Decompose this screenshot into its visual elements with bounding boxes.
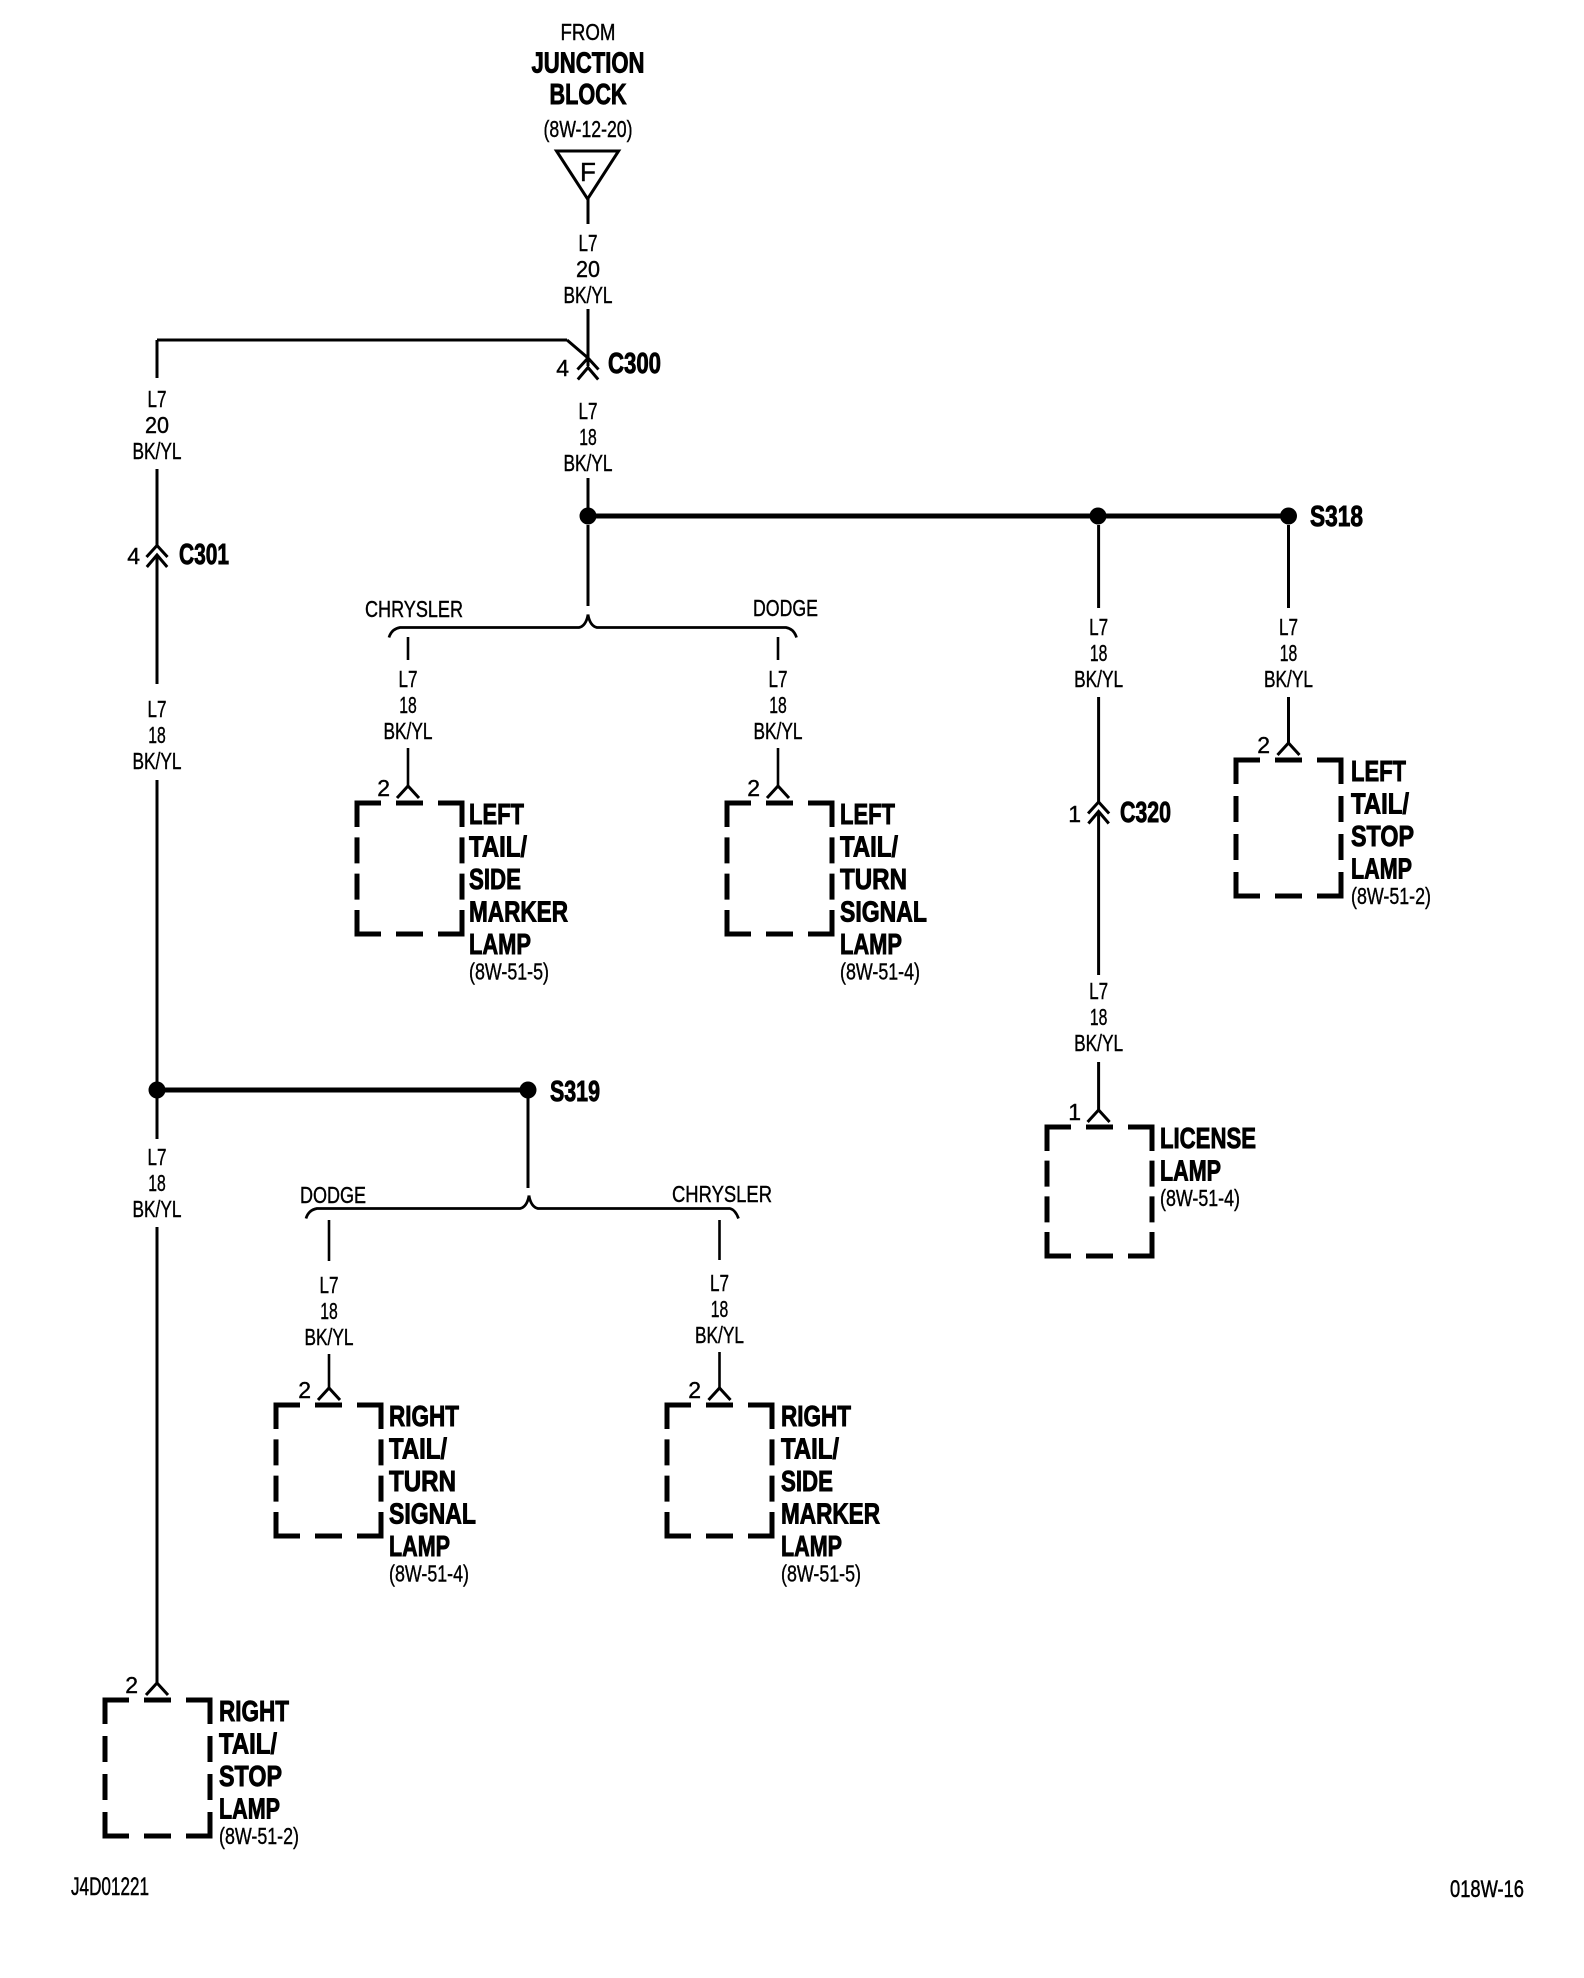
svg-text:18: 18 [148, 722, 166, 748]
svg-text:(8W-51-4): (8W-51-4) [1160, 1185, 1240, 1211]
svg-text:18: 18 [769, 692, 787, 718]
svg-text:TAIL/: TAIL/ [1351, 789, 1409, 821]
svg-text:LICENSE: LICENSE [1160, 1123, 1256, 1155]
svg-text:SIDE: SIDE [469, 864, 521, 896]
svg-text:18: 18 [579, 424, 597, 450]
svg-text:1: 1 [1068, 1099, 1081, 1125]
svg-text:TURN: TURN [840, 864, 907, 896]
svg-text:RIGHT: RIGHT [389, 1401, 459, 1433]
svg-text:LAMP: LAMP [1351, 854, 1412, 886]
svg-text:(8W-51-5): (8W-51-5) [469, 959, 549, 985]
svg-text:RIGHT: RIGHT [219, 1696, 289, 1728]
svg-text:(8W-51-4): (8W-51-4) [840, 959, 920, 985]
svg-text:TAIL/: TAIL/ [840, 832, 898, 864]
svg-text:018W-16: 018W-16 [1450, 1876, 1524, 1903]
svg-text:(8W-51-5): (8W-51-5) [781, 1561, 861, 1587]
svg-text:LAMP: LAMP [840, 929, 902, 961]
svg-text:BK/YL: BK/YL [305, 1324, 354, 1350]
svg-text:BK/YL: BK/YL [384, 718, 433, 744]
svg-text:LAMP: LAMP [389, 1531, 450, 1563]
svg-text:18: 18 [320, 1298, 338, 1324]
svg-text:CHRYSLER: CHRYSLER [672, 1181, 772, 1207]
svg-text:BK/YL: BK/YL [133, 1196, 182, 1222]
svg-text:BK/YL: BK/YL [1074, 666, 1123, 692]
svg-text:TAIL/: TAIL/ [781, 1434, 839, 1466]
svg-text:(8W-51-2): (8W-51-2) [1351, 883, 1431, 909]
svg-text:4: 4 [127, 543, 140, 569]
svg-text:20: 20 [145, 412, 169, 438]
svg-text:JUNCTION: JUNCTION [532, 48, 645, 80]
svg-text:L7: L7 [1089, 614, 1108, 640]
svg-text:BK/YL: BK/YL [754, 718, 803, 744]
svg-text:BK/YL: BK/YL [695, 1322, 744, 1348]
svg-text:DODGE: DODGE [300, 1182, 366, 1208]
svg-text:BK/YL: BK/YL [133, 748, 182, 774]
svg-text:18: 18 [711, 1296, 729, 1322]
svg-text:BK/YL: BK/YL [133, 438, 182, 464]
svg-text:MARKER: MARKER [781, 1499, 880, 1531]
svg-text:L7: L7 [579, 398, 598, 424]
svg-text:BLOCK: BLOCK [550, 79, 627, 111]
svg-text:1: 1 [1068, 801, 1081, 827]
svg-text:RIGHT: RIGHT [781, 1401, 851, 1433]
svg-text:18: 18 [148, 1170, 166, 1196]
svg-text:SIDE: SIDE [781, 1466, 833, 1498]
svg-text:(8W-12-20): (8W-12-20) [544, 116, 633, 142]
svg-text:(8W-51-2): (8W-51-2) [219, 1823, 299, 1849]
svg-text:L7: L7 [148, 386, 167, 412]
svg-text:LAMP: LAMP [1160, 1156, 1221, 1188]
svg-text:SIGNAL: SIGNAL [840, 897, 927, 929]
svg-text:LAMP: LAMP [469, 929, 531, 961]
svg-text:DODGE: DODGE [753, 595, 818, 621]
svg-text:L7: L7 [769, 666, 788, 692]
svg-text:FROM: FROM [561, 19, 616, 45]
svg-text:L7: L7 [399, 666, 418, 692]
svg-text:L7: L7 [148, 1144, 167, 1170]
svg-text:L7: L7 [579, 230, 598, 256]
svg-text:2: 2 [747, 775, 760, 801]
svg-text:L7: L7 [320, 1272, 339, 1298]
svg-text:CHRYSLER: CHRYSLER [365, 596, 463, 622]
svg-text:BK/YL: BK/YL [1074, 1030, 1123, 1056]
svg-text:2: 2 [1257, 732, 1270, 758]
svg-text:18: 18 [1280, 640, 1298, 666]
svg-text:S318: S318 [1310, 501, 1363, 533]
svg-text:L7: L7 [148, 696, 167, 722]
svg-text:BK/YL: BK/YL [1264, 666, 1313, 692]
svg-text:L7: L7 [710, 1270, 729, 1296]
svg-text:C301: C301 [179, 539, 229, 571]
svg-text:18: 18 [1090, 640, 1108, 666]
svg-text:2: 2 [688, 1377, 701, 1403]
svg-text:LAMP: LAMP [219, 1794, 280, 1826]
svg-text:2: 2 [377, 775, 390, 801]
svg-text:TURN: TURN [389, 1466, 456, 1498]
svg-text:STOP: STOP [219, 1761, 282, 1793]
svg-text:C300: C300 [608, 348, 661, 380]
svg-text:STOP: STOP [1351, 821, 1414, 853]
svg-text:(8W-51-4): (8W-51-4) [389, 1561, 469, 1587]
svg-text:TAIL/: TAIL/ [469, 832, 527, 864]
svg-text:18: 18 [1090, 1004, 1108, 1030]
svg-text:18: 18 [399, 692, 417, 718]
svg-text:F: F [580, 157, 596, 187]
svg-text:2: 2 [298, 1377, 311, 1403]
svg-text:C320: C320 [1120, 797, 1171, 829]
svg-text:MARKER: MARKER [469, 897, 568, 929]
svg-text:LAMP: LAMP [781, 1531, 842, 1563]
svg-text:LEFT: LEFT [840, 799, 895, 831]
svg-text:BK/YL: BK/YL [564, 450, 613, 476]
svg-text:2: 2 [125, 1672, 138, 1698]
svg-text:L7: L7 [1089, 978, 1108, 1004]
svg-text:TAIL/: TAIL/ [389, 1434, 447, 1466]
svg-text:4: 4 [556, 355, 569, 381]
svg-text:L7: L7 [1279, 614, 1298, 640]
svg-text:S319: S319 [550, 1076, 600, 1108]
svg-text:J4D01221: J4D01221 [71, 1873, 149, 1901]
svg-text:SIGNAL: SIGNAL [389, 1499, 476, 1531]
svg-text:20: 20 [576, 256, 600, 282]
svg-text:BK/YL: BK/YL [564, 282, 613, 308]
svg-text:LEFT: LEFT [1351, 756, 1406, 788]
svg-text:TAIL/: TAIL/ [219, 1729, 277, 1761]
svg-text:LEFT: LEFT [469, 799, 524, 831]
